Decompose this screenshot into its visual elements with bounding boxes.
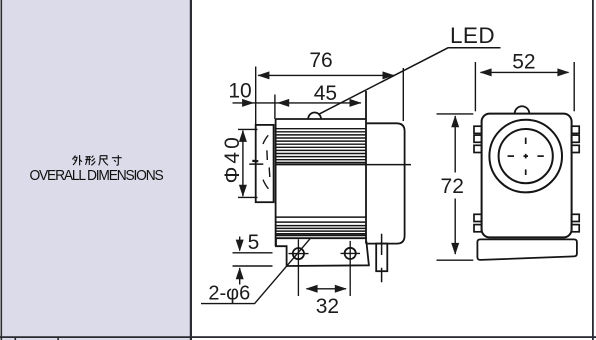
glyph 寸 xyxy=(111,155,121,165)
dim 52: extension lines xyxy=(474,62,476,111)
side view: cable gland xyxy=(376,244,387,272)
svg-text:32: 32 xyxy=(316,295,339,318)
svg-text:Φ40: Φ40 xyxy=(221,134,244,183)
dimension texts xyxy=(208,23,535,318)
svg-text:76: 76 xyxy=(309,49,332,72)
label text: chinese 外形尺寸 drawn as strokes xyxy=(72,155,132,168)
svg-text:10: 10 xyxy=(228,80,251,103)
dim phi40 arrowheads xyxy=(239,130,247,142)
dim 72 arrowheads xyxy=(451,115,459,127)
front view: side clips left upper xyxy=(474,126,579,232)
front view: LED dome on top xyxy=(515,106,530,113)
dim 76 arrowheads xyxy=(257,71,269,79)
dim 76: extension lines xyxy=(255,67,257,125)
dim 10 arrowhead right-pointing xyxy=(242,99,254,107)
table border right xyxy=(592,0,594,340)
label text: OVERALL DIMENSIONS xyxy=(8,167,185,184)
side view: upper cooling ribs xyxy=(276,129,366,160)
side view: body/housing boundary and 45 extension line xyxy=(365,91,367,244)
side view: hidden bell mouth dashed arcs xyxy=(252,135,269,189)
bottom row cell stub divider 2 xyxy=(57,338,59,340)
bottom row lavender cells xyxy=(2,338,190,340)
dim 45/10 arrowhead left-pointing xyxy=(277,99,289,107)
dim 5 arrowheads xyxy=(236,240,244,252)
side view: LED dome bump xyxy=(308,113,321,119)
svg-text:72: 72 xyxy=(441,175,464,198)
bottom row cell stub divider 1 xyxy=(15,338,17,340)
front view: lens outer circle xyxy=(489,120,562,193)
DIMENSIONS xyxy=(201,48,574,304)
glyph 尺 xyxy=(98,155,107,165)
glyph 外 xyxy=(72,155,82,165)
dim 45/10: shared dimension line xyxy=(233,102,361,104)
dim 32: dimension line xyxy=(307,288,347,290)
dim 2-phi6: leader with underline xyxy=(201,239,310,304)
glyph 形 xyxy=(85,155,95,165)
svg-text:LED: LED xyxy=(450,23,495,48)
side view: horizontal centerline xyxy=(249,163,411,166)
side view: rib at centerline (thick) xyxy=(276,162,366,164)
front view: side clips right lower xyxy=(572,214,580,221)
left table cell lavender background xyxy=(2,0,190,336)
dim 45 arrowhead right-pointing xyxy=(350,99,362,107)
svg-text:45: 45 xyxy=(314,82,337,105)
side view: lower ribs xyxy=(276,217,366,234)
dim 76: dimension line xyxy=(258,74,394,76)
front view: center mark xyxy=(508,138,544,175)
dim 72: arrow stems xyxy=(454,116,456,173)
side view: mounting hole right xyxy=(345,248,356,259)
svg-text:2-φ6: 2-φ6 xyxy=(208,283,250,305)
side view: mounting bracket outline xyxy=(276,238,369,266)
dim 5: reference lines xyxy=(233,252,273,254)
side view: front flange plate xyxy=(256,125,274,202)
table border left xyxy=(1,0,3,340)
table border middle divider xyxy=(190,0,192,340)
front view: lens inner circle xyxy=(499,129,553,183)
svg-text:52: 52 xyxy=(512,50,535,73)
side view: cable wire centerline xyxy=(381,234,383,283)
dim phi40: dimension line xyxy=(242,131,244,197)
side view: rear housing outline xyxy=(367,123,405,243)
side view: ribbed body left edge xyxy=(275,119,277,246)
dim phi40: extension lines xyxy=(238,128,258,130)
front view: body rounded rectangle xyxy=(482,114,572,238)
side view: body bottom double edge xyxy=(276,234,366,236)
side view: mounting hole left xyxy=(293,248,304,259)
FRONT_VIEW xyxy=(482,106,572,237)
MAIN_DRAWING xyxy=(201,23,579,318)
table border horizontal bottom xyxy=(0,336,596,338)
dim 5: arrow stems xyxy=(239,237,241,251)
LED leader line xyxy=(318,48,500,115)
dim 32 arrowheads xyxy=(306,285,318,293)
front view: base pedestal xyxy=(477,239,577,260)
svg-text:5: 5 xyxy=(248,231,260,254)
dim 52: dimension line xyxy=(481,71,569,73)
front view: side clips left lower xyxy=(474,214,482,221)
arrowheads xyxy=(236,68,570,292)
front view: side clips right upper xyxy=(572,126,580,133)
side view: ribbed body top edge xyxy=(276,118,366,120)
dim 45: left extension line xyxy=(274,95,276,120)
dim 72: extension lines xyxy=(437,113,474,115)
dim 52 arrowheads xyxy=(480,68,492,76)
